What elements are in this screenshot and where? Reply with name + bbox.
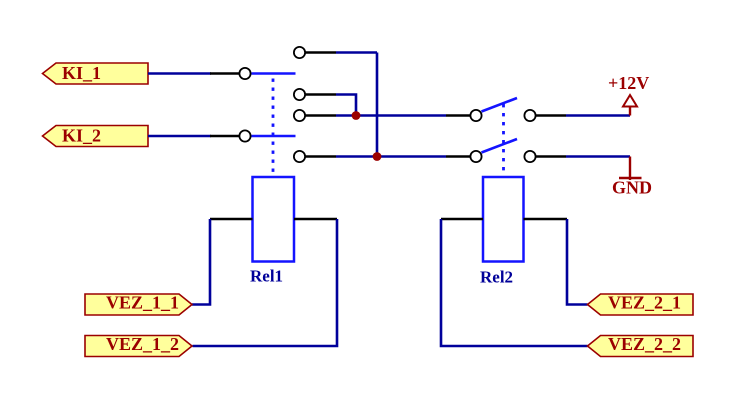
wire relay2 row2 to GND: [566, 155, 630, 158]
relay1 throw contact 1b pin: [306, 93, 337, 95]
svg-text:Rel2: Rel2: [480, 268, 513, 287]
svg-text:Rel1: Rel1: [250, 267, 283, 286]
wire coil1 left to VEZ_1_1: [192, 219, 210, 305]
relay2 row2 left pin: [446, 155, 471, 157]
svg-text:VEZ_1_2: VEZ_1_2: [106, 334, 179, 354]
wire KI_2 to relay1 pole2 pin: [148, 135, 211, 138]
relay1 coil Rel1: [253, 177, 295, 262]
relay2 coil pin right: [524, 218, 568, 220]
relay1 coil pin right: [294, 218, 337, 220]
relay2 coil Rel2: [483, 177, 524, 262]
relay1 pole2 contact circle: [239, 130, 250, 141]
junction node B: [373, 152, 382, 161]
wire throw2a to relay2 row1: [336, 114, 446, 117]
relay1 throw contact 1a circle: [294, 47, 305, 58]
port KI_1: [43, 63, 149, 84]
wire vertical bus x377: [376, 53, 379, 157]
wire relay2 row1 to +12V: [566, 114, 630, 117]
wire KI_1 to relay1 pole1 pin: [148, 72, 211, 75]
relay1 coil pin left: [210, 218, 253, 220]
relay2 row2 blade: [482, 139, 518, 153]
relay2 row1 left contact circle: [470, 110, 481, 121]
relay1 throw contact 2b circle: [294, 151, 305, 162]
port VEZ_1_2: [85, 334, 192, 357]
relay2 row2 left contact circle: [470, 151, 481, 162]
svg-text:VEZ_1_1: VEZ_1_1: [106, 293, 179, 313]
svg-text:VEZ_2_1: VEZ_2_1: [608, 293, 681, 313]
relay1 throw contact 2b pin: [306, 155, 337, 157]
port VEZ_2_1: [588, 293, 694, 316]
relay1 pole1 pin: [210, 72, 240, 74]
svg-text:+12V: +12V: [608, 73, 649, 93]
relay2 actuation dotted line: [502, 104, 505, 176]
wire coil1 right to VEZ_1_2: [193, 219, 338, 346]
relay2 coil pin left: [441, 218, 483, 220]
port VEZ_1_1: [85, 293, 192, 316]
port VEZ_2_2: [588, 334, 694, 357]
wire throw2b to relay2 row2: [336, 155, 446, 158]
svg-text:KI_2: KI_2: [62, 126, 101, 146]
port KI_2: [43, 126, 149, 147]
relay1 pole1 blade: [252, 72, 296, 75]
relay1 pole2 blade: [252, 135, 296, 138]
relay1 actuation dotted line: [272, 79, 275, 177]
wire throw1b down to node A: [336, 95, 356, 116]
relay2 row2 right pin: [536, 155, 566, 157]
relay1 throw contact 1b circle: [294, 89, 305, 100]
relay2 row2 right contact circle: [524, 151, 535, 162]
svg-text:VEZ_2_2: VEZ_2_2: [608, 334, 681, 354]
wire coil2 right to VEZ_2_1: [567, 219, 588, 305]
relay1 throw contact 2a circle: [294, 110, 305, 121]
wire coil2 left to VEZ_2_2: [441, 219, 588, 346]
relay1 pole1 contact circle: [239, 68, 250, 79]
relay2 row1 right contact circle: [524, 110, 535, 121]
power +12V: [608, 73, 649, 116]
wire throw1a to vertical bus: [336, 51, 377, 54]
svg-text:KI_1: KI_1: [62, 63, 101, 83]
relay2 row1 blade: [482, 98, 518, 112]
junction node A: [352, 111, 361, 120]
relay2 row1 left pin: [446, 114, 471, 116]
ground GND: [612, 157, 652, 198]
relay1 throw contact 2a pin: [306, 114, 337, 116]
relay1 throw contact 1a pin: [306, 51, 337, 53]
relay1 pole2 pin: [210, 135, 240, 137]
svg-text:GND: GND: [612, 178, 652, 198]
relay2 row1 right pin: [536, 114, 566, 116]
